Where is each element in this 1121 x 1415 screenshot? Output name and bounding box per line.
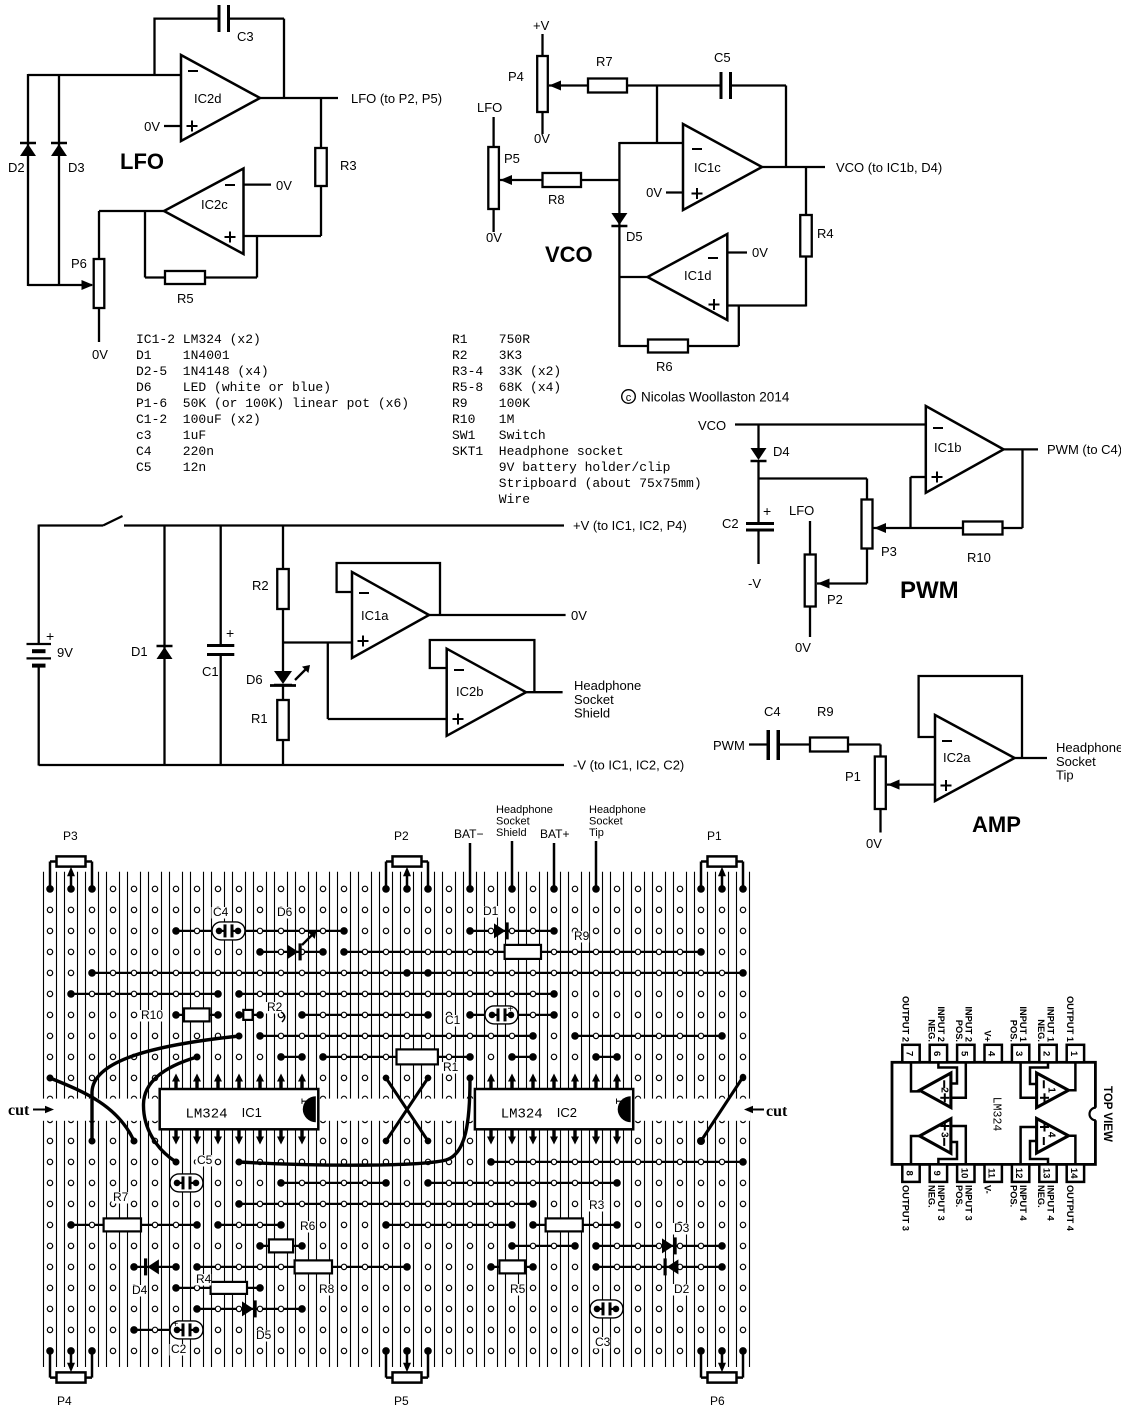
svg-text:R10 1M: R10 1M <box>452 412 514 427</box>
svg-text:D3: D3 <box>674 1221 690 1235</box>
svg-text:D2: D2 <box>674 1282 690 1296</box>
svg-text:C3: C3 <box>595 1335 611 1349</box>
svg-text:P5: P5 <box>504 151 520 166</box>
svg-text:IC2d: IC2d <box>194 91 221 106</box>
svg-text:P2: P2 <box>394 829 409 843</box>
svg-text:R7: R7 <box>596 54 613 69</box>
svg-text:C1-2 100uF (x2): C1-2 100uF (x2) <box>136 412 261 427</box>
svg-text:OUTPUT 1: OUTPUT 1 <box>1065 996 1075 1042</box>
svg-text:C5: C5 <box>714 50 731 65</box>
svg-text:INPUT 4: INPUT 4 <box>1018 1185 1028 1221</box>
svg-text:14: 14 <box>1068 1168 1079 1179</box>
svg-text:0V: 0V <box>276 178 292 193</box>
svg-text:9V: 9V <box>57 645 73 660</box>
svg-text:9: 9 <box>931 1171 942 1176</box>
svg-text:C3: C3 <box>237 29 254 44</box>
svg-text:P1: P1 <box>707 829 722 843</box>
svg-text:3: 3 <box>1013 1051 1024 1056</box>
svg-text:6: 6 <box>931 1051 942 1056</box>
svg-text:INPUT 1: INPUT 1 <box>1046 1006 1056 1042</box>
svg-text:R6: R6 <box>300 1219 316 1233</box>
svg-text:cut: cut <box>766 1103 788 1120</box>
svg-text:R2 3K3: R2 3K3 <box>452 348 522 363</box>
svg-text:PWM: PWM <box>900 577 959 604</box>
svg-text:D4: D4 <box>773 444 790 459</box>
svg-text:IC1-2 LM324 (x2): IC1-2 LM324 (x2) <box>136 332 261 347</box>
svg-text:R9: R9 <box>574 929 590 943</box>
svg-text:LM324: LM324 <box>990 1097 1003 1132</box>
svg-text:AMP: AMP <box>972 812 1021 837</box>
svg-text:1: 1 <box>613 1098 627 1105</box>
svg-text:cut: cut <box>8 1102 30 1119</box>
svg-text:Socket: Socket <box>496 816 530 828</box>
svg-text:+V (to IC1, IC2, P4): +V (to IC1, IC2, P4) <box>573 518 687 533</box>
svg-text:INPUT 2: INPUT 2 <box>963 1006 973 1042</box>
svg-text:3: 3 <box>939 1132 950 1138</box>
svg-text:R2: R2 <box>252 578 269 593</box>
svg-text:-V: -V <box>748 576 761 591</box>
svg-text:D1: D1 <box>483 904 499 918</box>
svg-text:NEG.: NEG. <box>926 1019 936 1042</box>
svg-text:1: 1 <box>298 1098 312 1105</box>
svg-text:R3-4 33K (x2): R3-4 33K (x2) <box>452 364 561 379</box>
svg-text:0V: 0V <box>571 608 587 623</box>
svg-text:IC2c: IC2c <box>201 197 228 212</box>
svg-text:R1: R1 <box>251 711 268 726</box>
svg-text:POS.: POS. <box>954 1020 964 1042</box>
svg-text:INPUT 4: INPUT 4 <box>1046 1185 1056 1221</box>
svg-text:R10: R10 <box>967 550 991 565</box>
svg-text:IC1b: IC1b <box>934 440 961 455</box>
svg-text:POS.: POS. <box>954 1185 964 1207</box>
svg-text:D1 1N4001: D1 1N4001 <box>136 348 230 363</box>
svg-text:OUTPUT 4: OUTPUT 4 <box>1065 1185 1075 1232</box>
svg-text:IC1a: IC1a <box>361 608 389 623</box>
svg-text:POS.: POS. <box>1009 1020 1019 1042</box>
svg-text:10: 10 <box>958 1168 969 1179</box>
svg-text:C1: C1 <box>202 664 219 679</box>
svg-text:0V: 0V <box>646 185 662 200</box>
svg-text:C4 220n: C4 220n <box>136 444 214 459</box>
svg-text:VCO (to IC1b, D4): VCO (to IC1b, D4) <box>836 160 942 175</box>
svg-text:R9 100K: R9 100K <box>452 396 530 411</box>
svg-text:TOP VIEW: TOP VIEW <box>1101 1086 1113 1142</box>
svg-text:IC1d: IC1d <box>684 268 711 283</box>
svg-text:C2: C2 <box>722 516 739 531</box>
svg-text:BAT+: BAT+ <box>540 827 569 841</box>
svg-text:+: + <box>226 625 234 641</box>
svg-text:LFO: LFO <box>477 100 502 115</box>
svg-text:Socket: Socket <box>589 816 623 828</box>
svg-text:C1: C1 <box>445 1013 461 1027</box>
svg-text:D6: D6 <box>277 905 293 919</box>
svg-text:4: 4 <box>1046 1132 1057 1138</box>
svg-text:R7: R7 <box>113 1190 129 1204</box>
svg-text:SKT1 Headphone socket: SKT1 Headphone socket <box>452 444 624 459</box>
svg-text:C5 12n: C5 12n <box>136 460 206 475</box>
svg-text:+: + <box>763 503 771 519</box>
svg-text:V+: V+ <box>983 1030 993 1042</box>
svg-text:P3: P3 <box>63 829 78 843</box>
svg-text:Headphone: Headphone <box>1056 740 1121 755</box>
svg-text:13: 13 <box>1041 1168 1052 1179</box>
svg-text:Headphone: Headphone <box>496 804 553 816</box>
svg-text:BAT−: BAT− <box>454 827 483 841</box>
svg-text:+: + <box>46 628 54 644</box>
svg-text:LM324: LM324 <box>501 1107 543 1123</box>
svg-text:c3 1uF: c3 1uF <box>136 428 206 443</box>
svg-text:P5: P5 <box>394 1394 409 1408</box>
svg-text:R3: R3 <box>589 1198 605 1212</box>
svg-text:D5: D5 <box>626 229 643 244</box>
svg-text:1: 1 <box>1068 1051 1079 1057</box>
svg-text:11: 11 <box>986 1168 997 1179</box>
svg-text:P4: P4 <box>57 1394 72 1408</box>
svg-text:VCO: VCO <box>545 242 593 267</box>
svg-text:R2: R2 <box>267 1000 283 1014</box>
svg-text:0V: 0V <box>144 119 160 134</box>
svg-text:D6: D6 <box>246 672 263 687</box>
svg-text:INPUT 1: INPUT 1 <box>1018 1006 1028 1042</box>
svg-text:D1: D1 <box>131 644 148 659</box>
svg-text:9V battery holder/clip: 9V battery holder/clip <box>452 460 670 475</box>
svg-text:C5: C5 <box>197 1153 213 1167</box>
svg-text:12: 12 <box>1013 1168 1024 1179</box>
svg-text:IC2b: IC2b <box>456 684 483 699</box>
svg-text:Headphone: Headphone <box>589 804 646 816</box>
svg-text:Wire: Wire <box>452 492 530 507</box>
svg-text:Nicolas Woollaston 2014: Nicolas Woollaston 2014 <box>641 390 790 405</box>
svg-text:-V (to IC1, IC2, C2): -V (to IC1, IC2, C2) <box>573 758 684 773</box>
svg-text:c: c <box>626 392 632 404</box>
svg-text:R9: R9 <box>817 704 834 719</box>
svg-text:PWM: PWM <box>713 738 745 753</box>
svg-text:R3: R3 <box>340 158 357 173</box>
svg-text:2: 2 <box>1041 1051 1052 1056</box>
svg-text:R8: R8 <box>319 1282 335 1296</box>
svg-text:INPUT 2: INPUT 2 <box>936 1006 946 1042</box>
svg-text:SW1 Switch: SW1 Switch <box>452 428 546 443</box>
svg-text:1: 1 <box>1046 1087 1057 1093</box>
svg-text:D5: D5 <box>256 1328 272 1342</box>
svg-text:R5: R5 <box>510 1282 526 1296</box>
svg-text:LM324: LM324 <box>186 1107 228 1123</box>
svg-text:IC1c: IC1c <box>694 160 721 175</box>
svg-text:0V: 0V <box>752 245 768 260</box>
svg-text:LFO: LFO <box>789 503 814 518</box>
svg-text:IC2a: IC2a <box>943 750 971 765</box>
svg-text:LFO (to P2, P5): LFO (to P2, P5) <box>351 91 442 106</box>
svg-text:C4: C4 <box>764 704 781 719</box>
svg-text:VCO: VCO <box>698 418 726 433</box>
svg-text:R1 750R: R1 750R <box>452 332 530 347</box>
svg-text:D6 LED (white or blue): D6 LED (white or blue) <box>136 380 331 395</box>
svg-text:R8: R8 <box>548 192 565 207</box>
svg-text:R4: R4 <box>817 226 834 241</box>
svg-text:D4: D4 <box>132 1283 148 1297</box>
svg-text:INPUT 3: INPUT 3 <box>963 1185 973 1221</box>
svg-text:P2: P2 <box>827 592 843 607</box>
svg-text:R10: R10 <box>141 1008 163 1022</box>
svg-text:IC2: IC2 <box>557 1105 577 1120</box>
svg-text:P6: P6 <box>71 256 87 271</box>
svg-text:+V: +V <box>533 18 550 33</box>
svg-text:IC1: IC1 <box>242 1105 262 1120</box>
svg-text:Tip: Tip <box>589 827 604 839</box>
svg-text:OUTPUT 3: OUTPUT 3 <box>901 1185 911 1231</box>
svg-text:NEG.: NEG. <box>1036 1019 1046 1042</box>
svg-text:C2: C2 <box>171 1342 187 1356</box>
svg-text:P4: P4 <box>508 69 524 84</box>
svg-text:5: 5 <box>958 1051 969 1057</box>
svg-text:0V: 0V <box>92 347 108 362</box>
svg-text:Shield: Shield <box>574 706 610 721</box>
svg-text:D2: D2 <box>8 160 25 175</box>
svg-text:R5-8 68K (x4): R5-8 68K (x4) <box>452 380 561 395</box>
svg-text:OUTPUT 2: OUTPUT 2 <box>901 996 911 1042</box>
svg-text:R6: R6 <box>656 359 673 374</box>
svg-text:P6: P6 <box>710 1394 725 1408</box>
svg-text:NEG.: NEG. <box>926 1185 936 1208</box>
svg-text:0V: 0V <box>795 640 811 655</box>
svg-text:Shield: Shield <box>496 827 527 839</box>
svg-text:0V: 0V <box>534 131 550 146</box>
svg-text:C4: C4 <box>213 905 229 919</box>
svg-text:0V: 0V <box>486 230 502 245</box>
svg-text:PWM (to C4): PWM (to C4) <box>1047 442 1121 457</box>
svg-text:P1: P1 <box>845 769 861 784</box>
svg-text:R4: R4 <box>196 1272 212 1286</box>
svg-text:0V: 0V <box>866 836 882 851</box>
svg-text:8: 8 <box>904 1171 915 1176</box>
svg-text:LFO: LFO <box>120 149 164 174</box>
svg-text:POS.: POS. <box>1009 1185 1019 1207</box>
svg-text:Stripboard (about 75x75mm): Stripboard (about 75x75mm) <box>452 476 702 491</box>
svg-text:7: 7 <box>904 1051 915 1056</box>
svg-text:4: 4 <box>986 1051 997 1057</box>
svg-text:INPUT 3: INPUT 3 <box>936 1185 946 1221</box>
svg-text:D3: D3 <box>68 160 85 175</box>
svg-text:R5: R5 <box>177 291 194 306</box>
svg-text:V-: V- <box>983 1185 993 1194</box>
svg-text:P3: P3 <box>881 544 897 559</box>
svg-text:NEG.: NEG. <box>1036 1185 1046 1208</box>
svg-text:Headphone: Headphone <box>574 678 641 693</box>
svg-text:P1-6 50K (or 100K) linear pot: P1-6 50K (or 100K) linear pot (x6) <box>136 396 409 411</box>
svg-text:R1: R1 <box>443 1060 459 1074</box>
svg-text:Tip: Tip <box>1056 768 1074 783</box>
svg-text:D2-5 1N4148 (x4): D2-5 1N4148 (x4) <box>136 364 269 379</box>
